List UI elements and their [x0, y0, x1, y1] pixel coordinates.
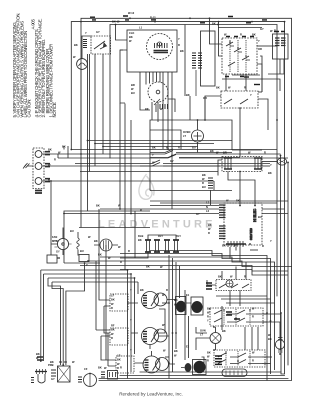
junction — [209, 17, 211, 19]
svg-text:LEADVENTURE: LEADVENTURE — [98, 219, 216, 231]
svg-text:FAN: FAN — [52, 235, 57, 239]
light motor oval — [275, 340, 284, 349]
surface switch SW3 circle b — [156, 358, 169, 371]
terminal L2 — [35, 178, 42, 185]
surface switch SW1 dashed box — [110, 294, 128, 311]
surface switch SW3 dashed box — [116, 356, 134, 373]
wire nest v40 — [40, 270, 42, 361]
oven indicator light — [192, 130, 204, 142]
svg-text:BK: BK — [222, 329, 226, 333]
wire label dash t5 — [246, 20, 267, 23]
wire switch drop b — [89, 54, 91, 172]
junction — [280, 312, 282, 314]
timer motor dashed circle — [148, 82, 168, 102]
surface switch SW1 wiper — [151, 294, 159, 306]
svg-text:OVEN: OVEN — [183, 130, 190, 134]
wire label dash t1 — [90, 17, 96, 20]
junction — [172, 332, 174, 334]
relay contact row — [197, 142, 199, 153]
wire clock drop c — [157, 72, 161, 82]
staircase wire s4 — [88, 261, 292, 267]
br cluster A dashed box — [216, 280, 251, 291]
probe labels smudge — [37, 357, 43, 360]
wire bus y158 — [58, 154, 288, 158]
oven lamp filament — [79, 63, 86, 66]
junction — [249, 309, 251, 311]
wire v188 — [188, 316, 190, 358]
svg-text:R: R — [207, 315, 209, 319]
thermostat switch row 1 — [150, 149, 232, 153]
wire oval left — [262, 161, 277, 163]
wire v169 — [168, 255, 170, 379]
transformer bars — [104, 240, 109, 250]
br cluster C blade 2 — [218, 360, 262, 364]
junction — [189, 17, 191, 19]
lock motor labels — [51, 370, 56, 376]
junction — [266, 312, 268, 314]
clock motor hub — [158, 42, 162, 46]
svg-text:BK: BK — [98, 366, 102, 370]
svg-text:BK-12: BK-12 — [112, 20, 120, 24]
wire v131 — [130, 274, 132, 372]
wire nest h278 — [48, 277, 135, 279]
svg-text:BU: BU — [258, 215, 262, 219]
notice text block (rotated) — [12, 13, 57, 118]
svg-text:HI ELEC: HI ELEC — [253, 208, 257, 222]
junction — [287, 162, 289, 164]
fan motor circle — [57, 238, 68, 249]
svg-text:RF: RF — [111, 324, 115, 328]
svg-text:BK: BK — [36, 352, 40, 356]
junction — [251, 21, 253, 23]
svg-text:BK: BK — [180, 49, 184, 53]
svg-text:Y: Y — [207, 319, 209, 323]
clock motor dashed circle — [147, 34, 173, 60]
svg-text:BK: BK — [174, 298, 178, 302]
wire left drop x51 — [50, 181, 52, 255]
svg-text:LR: LR — [117, 354, 121, 358]
wire v179 — [179, 266, 181, 298]
wire — [120, 49, 123, 51]
svg-text:R: R — [128, 249, 130, 253]
bake switch blade 2 — [240, 99, 248, 104]
wire — [150, 130, 181, 149]
wire — [263, 321, 267, 323]
svg-text:Y: Y — [86, 263, 88, 267]
surface switch SW2 wiper — [151, 330, 159, 342]
coil L1 leads — [77, 232, 79, 256]
wire bus y149.5 — [72, 149, 278, 151]
relay RA coil left — [147, 240, 150, 252]
selector bottom labels — [225, 76, 244, 78]
wire br right v270 — [221, 299, 271, 374]
svg-text:BK: BK — [268, 171, 272, 175]
wire br right v267 — [216, 296, 267, 381]
connector pins lower — [219, 226, 226, 239]
wire v134 — [134, 278, 136, 354]
wire — [262, 363, 265, 365]
junction — [50, 180, 52, 182]
door switch arrow — [104, 43, 107, 47]
svg-text:BK: BK — [74, 43, 78, 47]
junction — [223, 309, 225, 311]
bottom junction box — [108, 371, 118, 380]
terminal strip — [226, 243, 246, 245]
junction — [239, 107, 241, 109]
svg-text:R: R — [207, 359, 209, 363]
motor oval hatch — [279, 160, 285, 163]
svg-text:BU: BU — [131, 91, 135, 95]
surface element E2 blob small — [185, 363, 192, 372]
wire — [230, 247, 240, 262]
bake switch blade 1 — [224, 99, 232, 104]
wire v176 — [175, 262, 177, 349]
wire label dash t4 — [200, 17, 233, 23]
wire right bus c — [287, 162, 289, 365]
wire — [218, 160, 222, 176]
bottom terminal cluster — [101, 372, 105, 377]
staircase wire s6 — [120, 270, 288, 276]
cluster B pin labels — [226, 312, 240, 319]
connector J3 pins col a — [192, 53, 196, 68]
wire br link d — [265, 356, 272, 358]
wire nest h270 — [41, 269, 128, 271]
svg-text:BK: BK — [202, 173, 206, 177]
wire — [107, 333, 109, 366]
svg-text:A-905: A-905 — [30, 18, 35, 29]
clock box — [127, 30, 177, 72]
mid-left box bottom — [64, 262, 100, 264]
wire oven light top — [215, 327, 217, 333]
wire — [229, 291, 231, 307]
surface switch SW2 circle — [142, 328, 159, 345]
wire relay top link — [148, 235, 176, 240]
junction — [279, 353, 281, 355]
svg-text:BK: BK — [50, 360, 54, 364]
wire — [156, 309, 165, 333]
wire fan left lead — [51, 244, 63, 255]
wire clock drop d — [167, 72, 169, 149]
svg-text:N: N — [206, 205, 208, 209]
svg-text:R: R — [178, 43, 180, 47]
wire mid bus y209 — [100, 208, 285, 210]
wire — [134, 211, 136, 258]
staircase wire s2 — [120, 254, 271, 300]
selector wire in2 — [219, 22, 223, 56]
selector wire in — [210, 18, 223, 44]
staircase wire s5 — [80, 266, 288, 272]
junction — [130, 273, 132, 275]
svg-text:DLB: DLB — [138, 234, 143, 238]
lock motor box — [58, 366, 71, 382]
junction — [225, 352, 227, 354]
svg-text:R: R — [202, 181, 204, 185]
svg-text:BK: BK — [94, 239, 98, 243]
bottom junction pins — [110, 372, 116, 377]
selector wire out — [257, 45, 273, 47]
svg-text:GY: GY — [196, 212, 200, 216]
junction — [218, 21, 220, 23]
wire selector drop b — [245, 74, 247, 91]
svg-text:R: R — [120, 260, 122, 264]
svg-text:R: R — [120, 366, 122, 370]
svg-text:R: R — [252, 359, 254, 363]
label y77 — [244, 76, 249, 78]
wire right bus b — [280, 155, 282, 350]
wire — [221, 271, 223, 280]
door switch S1 dashed box — [91, 36, 111, 54]
svg-text:BK: BK — [145, 107, 149, 111]
surface switch SW2 circle b — [154, 329, 167, 342]
wire nest v43 — [43, 274, 45, 361]
surface switch SW1 contact column — [143, 296, 147, 306]
terminal label BK pair — [45, 152, 50, 155]
cluster C dashed verticals — [226, 351, 250, 366]
door switch S1 blade — [94, 41, 106, 49]
watermark LeadVenture flame logo — [139, 174, 154, 199]
thermostat switch row 3 — [140, 163, 220, 167]
wire y79 link — [222, 79, 280, 91]
junction — [119, 208, 121, 210]
wire clock feed — [116, 25, 128, 41]
bake switch wire2 — [258, 99, 268, 130]
svg-text:R: R — [48, 179, 50, 183]
wire — [105, 245, 107, 360]
wire relay drop — [239, 172, 241, 206]
svg-text:BK: BK — [207, 307, 211, 311]
svg-text:Y: Y — [130, 318, 132, 322]
wire v185 — [184, 290, 186, 360]
wire nest h274 — [44, 273, 132, 275]
svg-text:BK: BK — [268, 337, 272, 341]
wire sw3 left — [106, 360, 144, 366]
connector P3 tail — [210, 190, 212, 205]
connector P1 pins — [83, 40, 87, 48]
wire top outer L1 — [81, 18, 292, 380]
wire — [119, 103, 121, 209]
junction — [154, 21, 156, 23]
junction — [80, 153, 82, 155]
connector J2 pins — [275, 38, 286, 46]
wire bus y143.5 — [95, 143, 214, 145]
wire J2 drop — [268, 59, 284, 74]
wire — [213, 181, 215, 190]
svg-text:BK: BK — [117, 358, 121, 362]
svg-text:R-12: R-12 — [150, 16, 156, 20]
ground symbol — [23, 163, 33, 169]
surface element E1 box right — [191, 297, 203, 315]
junction — [254, 205, 256, 207]
wire bottom bus c — [99, 378, 288, 380]
connector J2 tail — [279, 59, 281, 74]
wire bus y166 — [42, 165, 262, 167]
timer motor hub — [156, 90, 160, 94]
selector contacts col b — [237, 40, 239, 72]
wire oven light left — [196, 338, 210, 342]
relay RB caps — [164, 240, 170, 252]
svg-text:RLY: RLY — [176, 234, 181, 238]
control housing box — [201, 31, 216, 86]
wire bottom bus a — [140, 371, 281, 373]
wire br right v274 — [226, 303, 275, 370]
junction box small pin — [57, 257, 60, 259]
conv motor bar — [89, 374, 91, 387]
conv motor pins — [78, 377, 82, 382]
surface switch SW1 circle b — [154, 293, 167, 306]
junction — [129, 17, 131, 19]
selector inner stubs — [230, 46, 250, 60]
wire bottom bus b — [120, 375, 285, 377]
svg-text:R: R — [252, 315, 254, 319]
svg-text:GY: GY — [260, 27, 264, 31]
svg-text:3313 W10: 3313 W10 — [249, 228, 253, 240]
svg-text:BK: BK — [138, 238, 142, 242]
junction — [245, 55, 247, 57]
wire strip drop — [235, 247, 237, 251]
svg-text:Y: Y — [130, 348, 132, 352]
wire br link b — [263, 314, 281, 374]
wire timer pin link — [154, 99, 160, 105]
junction — [217, 24, 219, 26]
wire lamp top — [82, 36, 91, 59]
svg-text:CLK: CLK — [129, 31, 134, 35]
junction — [229, 41, 231, 43]
wire lamp drop — [80, 70, 82, 228]
wire — [261, 74, 263, 92]
wire sw1 left — [99, 296, 138, 306]
latch coil A caps — [224, 158, 232, 169]
staircase wire s1 — [150, 251, 267, 297]
svg-text:Y: Y — [250, 93, 252, 97]
wire — [235, 267, 237, 280]
svg-text:R: R — [208, 231, 210, 235]
latch relay dashed box — [222, 157, 262, 172]
cluster A labels — [206, 283, 212, 289]
terminal block label — [35, 191, 42, 194]
latch coil B — [255, 158, 261, 169]
mid box right leg — [232, 149, 262, 151]
probe jack body — [38, 374, 45, 383]
conv motor circle — [84, 374, 97, 387]
wire — [165, 356, 169, 358]
clock pin strip — [154, 51, 169, 53]
br cluster B blade 2 — [214, 318, 263, 322]
br cluster A blades — [219, 284, 249, 288]
wire br link e — [265, 363, 271, 365]
wire bake to relay — [239, 108, 241, 157]
wire relay bottom link — [120, 252, 148, 258]
br cluster B blade 1 — [214, 310, 263, 314]
svg-text:BK: BK — [218, 275, 222, 279]
svg-text:BK: BK — [129, 35, 133, 39]
wire clock drop b — [150, 72, 154, 84]
selector wire out2 — [257, 64, 262, 92]
motor oval — [277, 158, 286, 165]
junction — [94, 143, 96, 145]
junction box 2 — [79, 255, 89, 262]
wire J3 drop — [195, 70, 197, 96]
surface switch SW3 circle — [143, 356, 160, 373]
cluster C pin labels — [215, 356, 222, 364]
selector contacts col a — [229, 40, 231, 72]
junction — [84, 262, 86, 264]
latch coil A — [225, 158, 231, 169]
wire br link c — [263, 322, 280, 340]
connector J3 pins col b — [198, 53, 202, 68]
wire — [245, 262, 247, 280]
wire — [273, 45, 277, 47]
wire nest v52 — [52, 282, 63, 365]
wire v172 — [172, 258, 174, 372]
indicator feed — [197, 120, 199, 130]
wire fan top lead — [62, 228, 64, 239]
J2 top label — [274, 31, 285, 33]
junction — [80, 21, 82, 23]
junction — [171, 155, 173, 157]
wire — [64, 146, 68, 158]
wire — [184, 25, 186, 97]
wire sw2 left — [96, 330, 138, 336]
surface switch SW3 contact column — [145, 360, 149, 370]
surface switch SW1 circle — [142, 292, 159, 309]
svg-text:Y: Y — [270, 239, 272, 243]
junction — [168, 302, 170, 304]
svg-text:BK: BK — [222, 244, 226, 248]
part number label — [249, 228, 253, 240]
br cluster C blade 1 — [218, 353, 262, 357]
svg-text:BK: BK — [96, 204, 100, 208]
svg-text:R: R — [262, 244, 264, 248]
junction — [115, 24, 117, 26]
svg-text:BK: BK — [48, 148, 52, 152]
probe jack bar — [35, 371, 47, 373]
svg-text:OR: OR — [258, 47, 262, 51]
relay RB coil left — [166, 240, 169, 252]
terminal label W pair — [45, 164, 50, 167]
wire bus y163.5 — [75, 163, 270, 165]
junction — [175, 332, 177, 334]
wire — [162, 72, 164, 149]
wire — [196, 327, 207, 333]
relay RB coil right — [175, 240, 178, 252]
svg-text:RLY: RLY — [158, 234, 163, 238]
wire — [171, 154, 173, 209]
latch coil B caps — [254, 158, 262, 169]
junction — [197, 119, 199, 121]
wire clock drop e — [171, 72, 173, 156]
junction box small — [47, 255, 57, 263]
junction — [270, 320, 272, 322]
wire right stub — [250, 249, 258, 251]
switch blade bus1 — [165, 151, 173, 155]
wire relay drop b — [228, 172, 255, 206]
surface switch SW3 wiper — [153, 359, 161, 371]
hi-elec dashed box — [224, 203, 262, 245]
svg-text:Y: Y — [130, 288, 132, 292]
svg-text:Y: Y — [178, 37, 180, 41]
terminal strip pins — [228, 241, 243, 247]
junction — [284, 21, 286, 23]
thermostat switch row 2 — [150, 154, 240, 158]
junction — [130, 213, 132, 215]
clock connector pins — [155, 43, 168, 48]
timer bottom pins — [160, 104, 168, 109]
terminal label R pair — [45, 179, 50, 182]
svg-text:BK: BK — [207, 351, 211, 355]
svg-text:BK: BK — [210, 149, 214, 153]
wire timer link — [140, 72, 150, 110]
svg-text:BU: BU — [202, 185, 206, 189]
